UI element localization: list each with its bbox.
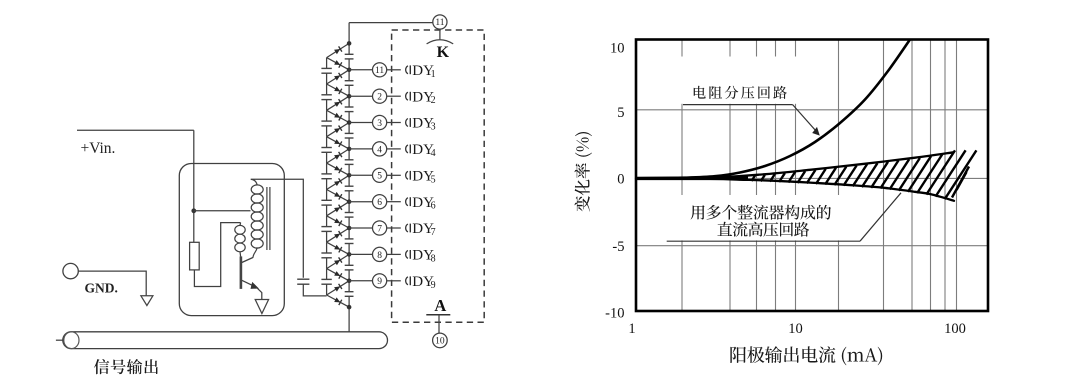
- svg-text:6: 6: [431, 201, 436, 212]
- svg-text:1: 1: [431, 69, 436, 80]
- svg-text:3: 3: [431, 122, 436, 133]
- svg-text:100: 100: [944, 321, 966, 337]
- svg-text:5: 5: [431, 174, 436, 185]
- svg-text:A: A: [434, 296, 446, 315]
- svg-text:10: 10: [788, 321, 803, 337]
- svg-text:9: 9: [431, 280, 436, 291]
- svg-text:9: 9: [377, 277, 382, 287]
- svg-text:5: 5: [617, 105, 624, 121]
- svg-text:2: 2: [431, 95, 436, 106]
- svg-text:7: 7: [377, 224, 382, 234]
- svg-text:0: 0: [617, 171, 624, 187]
- svg-text:3: 3: [377, 119, 382, 129]
- svg-text:4: 4: [431, 148, 436, 159]
- svg-text:4: 4: [377, 145, 382, 155]
- svg-text:7: 7: [431, 227, 436, 238]
- svg-text:-5: -5: [612, 239, 624, 255]
- svg-text:8: 8: [377, 251, 382, 261]
- svg-text:11: 11: [435, 18, 444, 28]
- svg-text:10: 10: [435, 337, 445, 347]
- svg-text:11: 11: [375, 66, 384, 76]
- svg-text:5: 5: [377, 172, 382, 182]
- svg-text:8: 8: [431, 253, 436, 264]
- svg-text:10: 10: [610, 40, 625, 56]
- svg-text:1: 1: [628, 321, 635, 337]
- svg-text:-10: -10: [605, 306, 624, 322]
- svg-text:2: 2: [377, 93, 382, 103]
- svg-text:+Vin.: +Vin.: [81, 140, 116, 157]
- svg-text:6: 6: [377, 198, 382, 208]
- svg-text:GND.: GND.: [85, 281, 118, 296]
- svg-text:K: K: [437, 44, 450, 61]
